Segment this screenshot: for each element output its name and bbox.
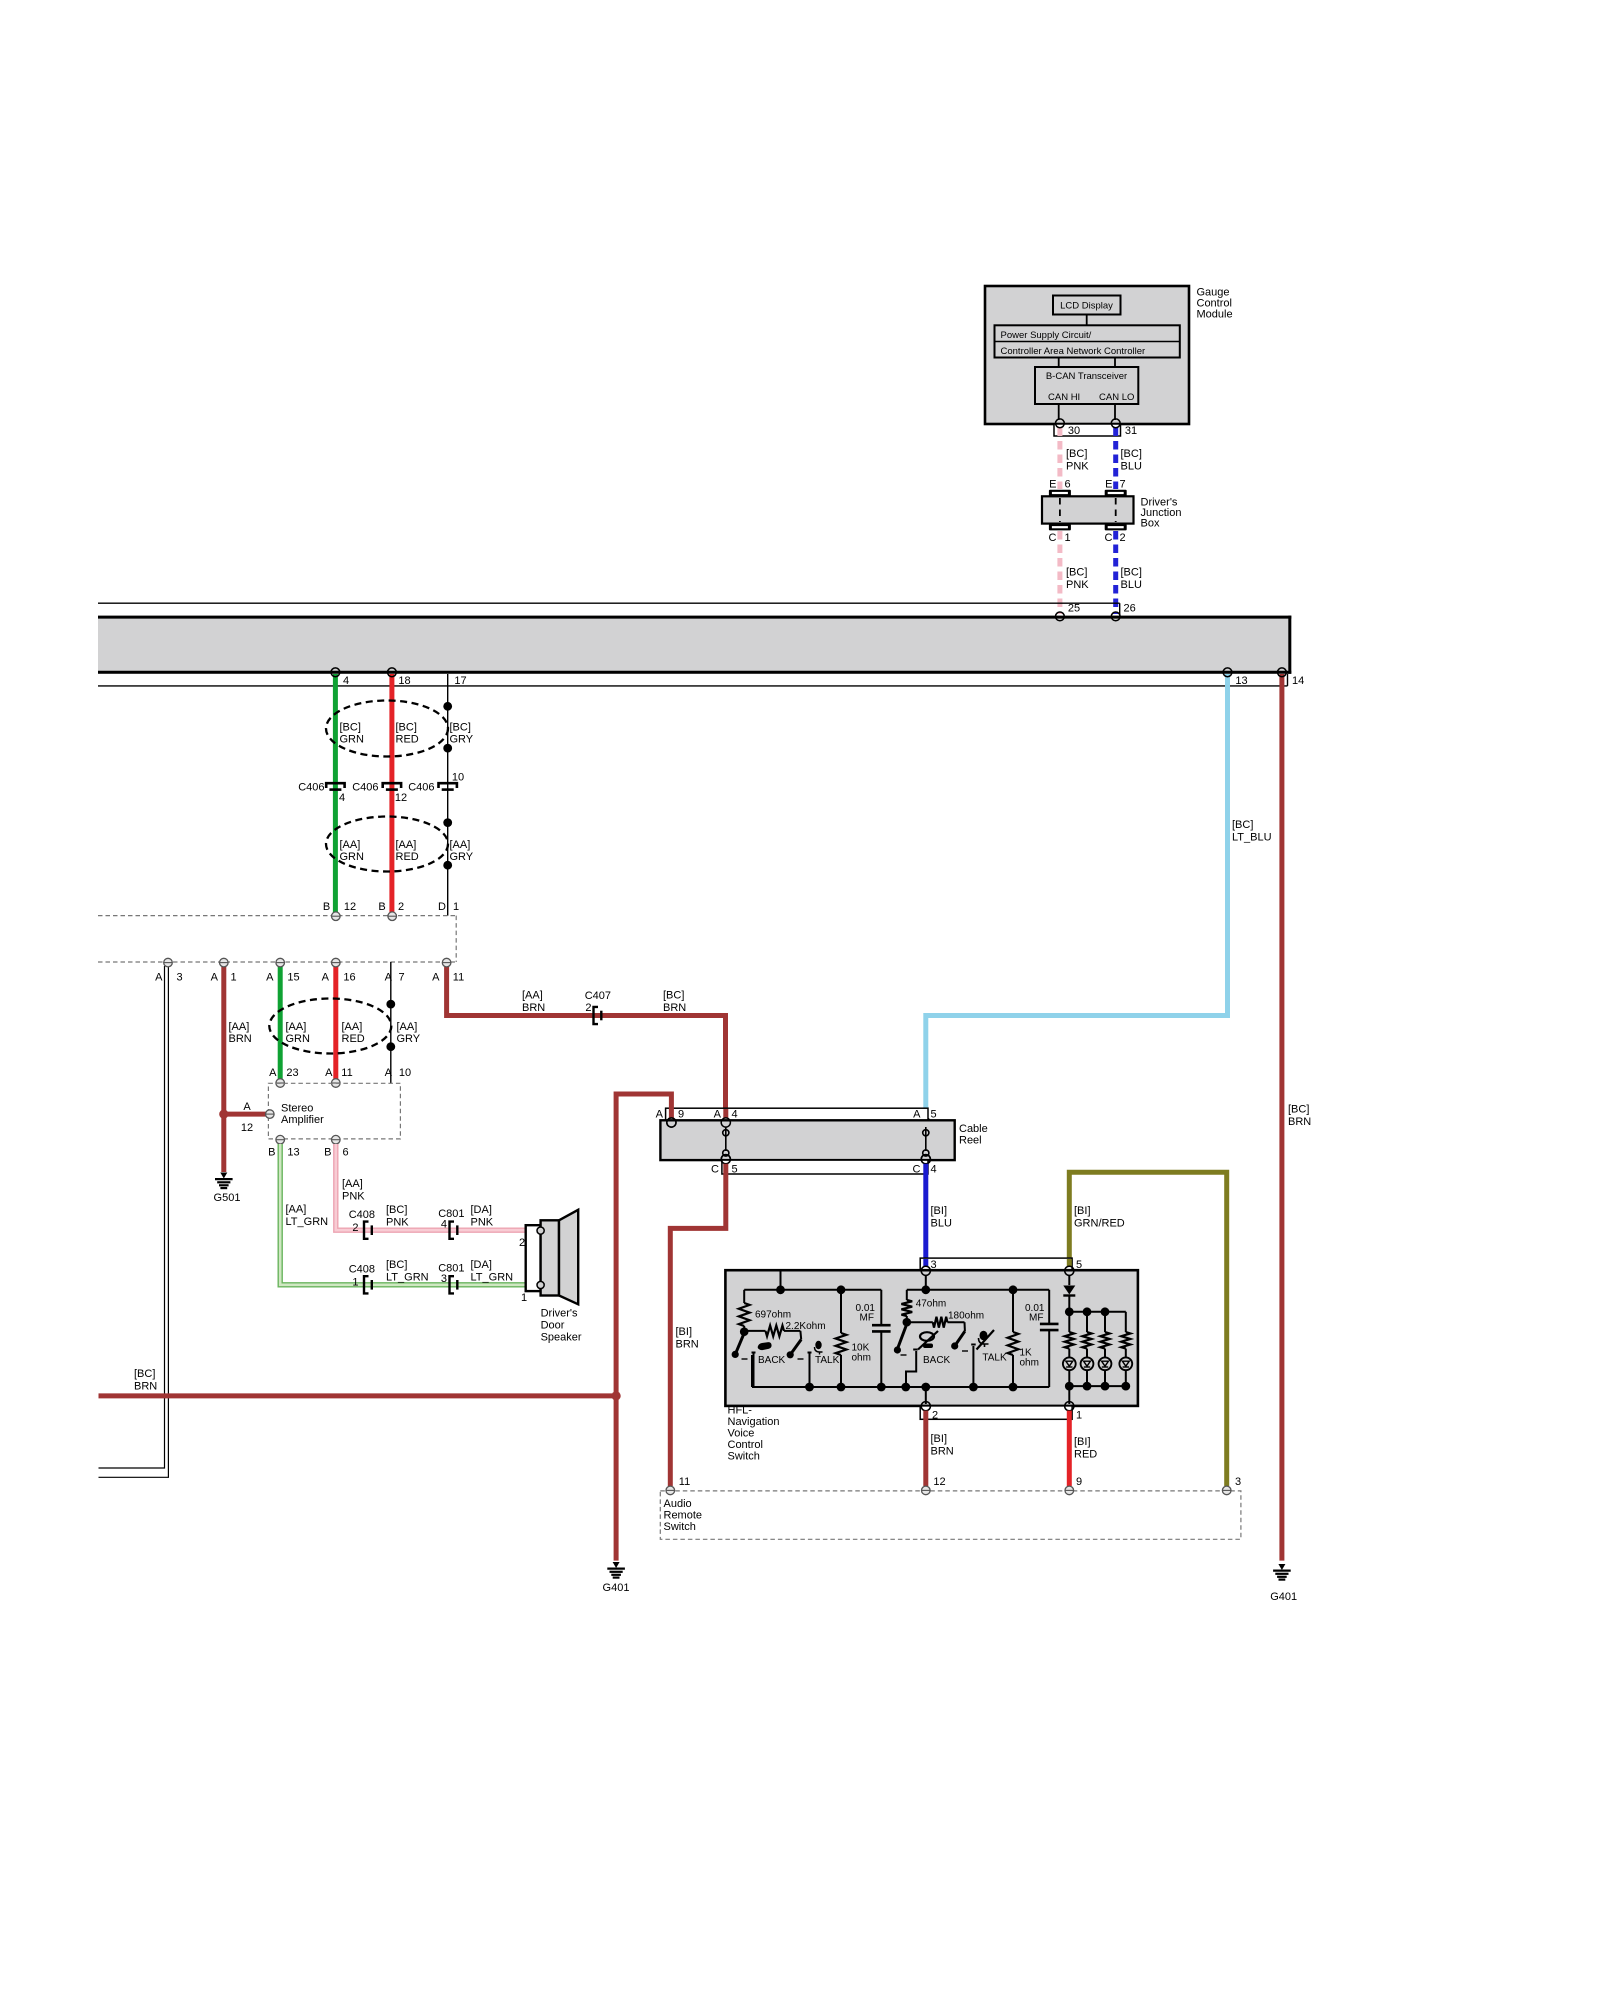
svg-text:13: 13 <box>287 1147 299 1159</box>
svg-text:Amplifier: Amplifier <box>281 1114 324 1126</box>
svg-text:10: 10 <box>452 772 464 784</box>
svg-text:14: 14 <box>1292 675 1304 687</box>
svg-text:47ohm: 47ohm <box>916 1298 947 1309</box>
svg-text:C408: C408 <box>349 1264 375 1276</box>
svg-text:6: 6 <box>342 1147 348 1159</box>
svg-text:TALK: TALK <box>815 1355 840 1366</box>
svg-text:Voice: Voice <box>728 1428 755 1440</box>
svg-text:GRY: GRY <box>450 734 474 746</box>
svg-text:[BC]: [BC] <box>1066 448 1087 460</box>
svg-text:[BC]: [BC] <box>450 722 471 734</box>
svg-text:18: 18 <box>398 675 410 687</box>
svg-text:[BC]: [BC] <box>1121 448 1142 460</box>
svg-text:10: 10 <box>399 1067 411 1079</box>
svg-text:BRN: BRN <box>676 1339 699 1351</box>
svg-text:[BC]: [BC] <box>1066 567 1087 579</box>
svg-text:GRY: GRY <box>450 851 474 863</box>
svg-text:Cable: Cable <box>959 1123 988 1135</box>
svg-text:[AA]: [AA] <box>342 1178 363 1190</box>
svg-text:GRY: GRY <box>397 1033 421 1045</box>
svg-text:PNK: PNK <box>1066 461 1089 473</box>
svg-text:A: A <box>385 1067 393 1079</box>
svg-text:[BI]: [BI] <box>676 1326 693 1338</box>
svg-text:Remote: Remote <box>664 1510 703 1522</box>
svg-text:C: C <box>711 1164 719 1176</box>
svg-text:MF: MF <box>1029 1313 1043 1324</box>
svg-text:G401: G401 <box>603 1582 630 1594</box>
svg-text:Controller Area Network Contro: Controller Area Network Controller <box>1001 346 1146 357</box>
svg-text:A: A <box>155 972 163 984</box>
svg-text:BACK: BACK <box>758 1355 786 1366</box>
svg-text:TALK: TALK <box>982 1352 1007 1363</box>
svg-text:1: 1 <box>453 901 459 913</box>
svg-text:[BC]: [BC] <box>386 1204 407 1216</box>
svg-text:A: A <box>211 972 219 984</box>
svg-text:9: 9 <box>678 1109 684 1121</box>
svg-text:2: 2 <box>585 1002 591 1014</box>
svg-text:5: 5 <box>930 1109 936 1121</box>
svg-text:B-CAN Transceiver: B-CAN Transceiver <box>1046 371 1127 382</box>
svg-text:6: 6 <box>1065 479 1071 491</box>
svg-text:LCD Display: LCD Display <box>1060 301 1113 312</box>
svg-text:2: 2 <box>398 901 404 913</box>
svg-text:LT_GRN: LT_GRN <box>386 1272 429 1284</box>
svg-text:B: B <box>378 901 385 913</box>
svg-text:Speaker: Speaker <box>541 1332 582 1344</box>
svg-text:26: 26 <box>1124 602 1136 614</box>
svg-text:1: 1 <box>352 1277 358 1289</box>
svg-text:D: D <box>438 901 446 913</box>
svg-text:[DA]: [DA] <box>471 1259 492 1271</box>
svg-text:B: B <box>268 1147 275 1159</box>
svg-text:C: C <box>1105 532 1113 544</box>
svg-text:E: E <box>1105 479 1112 491</box>
svg-text:[BI]: [BI] <box>931 1205 948 1217</box>
svg-text:Switch: Switch <box>728 1451 760 1463</box>
svg-text:Stereo: Stereo <box>281 1103 313 1115</box>
svg-text:C: C <box>913 1164 921 1176</box>
svg-text:15: 15 <box>287 972 299 984</box>
svg-text:16: 16 <box>343 972 355 984</box>
svg-text:BLU: BLU <box>1121 461 1142 473</box>
svg-text:A: A <box>269 1067 277 1079</box>
svg-text:PNK: PNK <box>471 1217 494 1229</box>
svg-text:Reel: Reel <box>959 1135 982 1147</box>
svg-text:GRN: GRN <box>340 734 365 746</box>
svg-text:[BI]: [BI] <box>931 1433 948 1445</box>
svg-text:[BC]: [BC] <box>1121 567 1142 579</box>
svg-text:3: 3 <box>1235 1476 1241 1488</box>
svg-text:A: A <box>432 972 440 984</box>
svg-text:[AA]: [AA] <box>397 1021 418 1033</box>
svg-text:3: 3 <box>441 1273 447 1285</box>
svg-text:5: 5 <box>731 1164 737 1176</box>
svg-text:RED: RED <box>342 1033 365 1045</box>
svg-text:A: A <box>913 1109 921 1121</box>
svg-text:BLU: BLU <box>931 1218 952 1230</box>
svg-text:[BC]: [BC] <box>1288 1104 1309 1116</box>
svg-text:7: 7 <box>1120 479 1126 491</box>
svg-text:RED: RED <box>1074 1449 1097 1461</box>
svg-text:MF: MF <box>860 1313 874 1324</box>
svg-text:Module: Module <box>1197 309 1233 321</box>
svg-text:ohm: ohm <box>852 1353 871 1364</box>
svg-text:[AA]: [AA] <box>286 1021 307 1033</box>
svg-text:[AA]: [AA] <box>450 839 471 851</box>
svg-text:[BC]: [BC] <box>386 1259 407 1271</box>
svg-text:7: 7 <box>398 972 404 984</box>
svg-text:Switch: Switch <box>664 1521 696 1533</box>
svg-text:3: 3 <box>176 972 182 984</box>
svg-text:[AA]: [AA] <box>342 1021 363 1033</box>
svg-text:A: A <box>714 1109 722 1121</box>
svg-text:[BC]: [BC] <box>1232 819 1253 831</box>
svg-text:[DA]: [DA] <box>471 1204 492 1216</box>
svg-text:4: 4 <box>441 1219 447 1231</box>
svg-text:11: 11 <box>453 972 464 984</box>
svg-text:A: A <box>325 1067 333 1079</box>
svg-text:BLU: BLU <box>1121 579 1142 591</box>
svg-text:31: 31 <box>1125 425 1137 437</box>
svg-text:PNK: PNK <box>342 1191 365 1203</box>
svg-text:25: 25 <box>1068 602 1080 614</box>
svg-text:4: 4 <box>339 792 345 804</box>
svg-text:C406: C406 <box>298 782 324 794</box>
svg-text:23: 23 <box>286 1067 298 1079</box>
svg-text:CAN LO: CAN LO <box>1099 392 1134 403</box>
svg-text:30: 30 <box>1068 425 1080 437</box>
svg-text:4: 4 <box>343 675 349 687</box>
svg-text:LT_BLU: LT_BLU <box>1232 832 1272 844</box>
svg-text:A: A <box>656 1109 664 1121</box>
svg-text:Navigation: Navigation <box>728 1416 780 1428</box>
svg-text:C408: C408 <box>349 1209 375 1221</box>
svg-text:[AA]: [AA] <box>522 990 543 1002</box>
svg-text:BRN: BRN <box>134 1381 157 1393</box>
svg-text:RED: RED <box>396 851 419 863</box>
svg-text:2.2Kohm: 2.2Kohm <box>786 1321 826 1332</box>
svg-text:[BI]: [BI] <box>1074 1436 1091 1448</box>
svg-text:4: 4 <box>731 1109 737 1121</box>
svg-text:[BC]: [BC] <box>134 1368 155 1380</box>
svg-text:Door: Door <box>541 1320 565 1332</box>
svg-text:A: A <box>266 972 274 984</box>
svg-text:[BC]: [BC] <box>396 722 417 734</box>
svg-text:PNK: PNK <box>386 1217 409 1229</box>
svg-text:A: A <box>322 972 330 984</box>
svg-text:C407: C407 <box>585 990 611 1002</box>
svg-text:BRN: BRN <box>522 1002 545 1014</box>
svg-text:12: 12 <box>344 901 356 913</box>
svg-text:1: 1 <box>1065 532 1071 544</box>
svg-text:2: 2 <box>352 1222 358 1234</box>
svg-text:LT_GRN: LT_GRN <box>471 1272 514 1284</box>
svg-text:Audio: Audio <box>664 1498 692 1510</box>
svg-text:[AA]: [AA] <box>396 839 417 851</box>
svg-text:1: 1 <box>230 972 236 984</box>
svg-text:12: 12 <box>933 1476 945 1488</box>
svg-text:BRN: BRN <box>931 1446 954 1458</box>
svg-text:2: 2 <box>1120 532 1126 544</box>
svg-text:1: 1 <box>1076 1410 1082 1422</box>
svg-text:9: 9 <box>1076 1476 1082 1488</box>
svg-text:Box: Box <box>1141 518 1160 530</box>
svg-text:BACK: BACK <box>923 1355 951 1366</box>
svg-text:[BC]: [BC] <box>663 990 684 1002</box>
svg-text:12: 12 <box>395 792 407 804</box>
svg-text:13: 13 <box>1235 675 1247 687</box>
svg-text:LT_GRN: LT_GRN <box>286 1216 329 1228</box>
svg-text:2: 2 <box>932 1410 938 1422</box>
svg-text:GRN/RED: GRN/RED <box>1074 1218 1125 1230</box>
svg-text:BRN: BRN <box>229 1033 252 1045</box>
svg-text:G401: G401 <box>1270 1591 1297 1603</box>
svg-text:HFL-: HFL- <box>728 1405 753 1417</box>
svg-text:BRN: BRN <box>1288 1116 1311 1128</box>
svg-text:A: A <box>243 1101 251 1113</box>
svg-text:12: 12 <box>241 1122 253 1134</box>
svg-text:2: 2 <box>519 1237 525 1249</box>
svg-text:180ohm: 180ohm <box>948 1311 984 1322</box>
svg-text:GRN: GRN <box>340 851 365 863</box>
svg-text:B: B <box>323 901 330 913</box>
svg-text:RED: RED <box>396 734 419 746</box>
svg-text:ohm: ohm <box>1020 1358 1039 1369</box>
svg-text:GRN: GRN <box>286 1033 311 1045</box>
svg-text:C: C <box>1049 532 1057 544</box>
svg-text:[AA]: [AA] <box>340 839 361 851</box>
svg-text:[BC]: [BC] <box>340 722 361 734</box>
svg-text:E: E <box>1049 479 1056 491</box>
svg-text:BRN: BRN <box>663 1002 686 1014</box>
svg-text:[AA]: [AA] <box>286 1204 307 1216</box>
svg-text:Control: Control <box>728 1439 763 1451</box>
svg-text:C406: C406 <box>352 782 378 794</box>
svg-text:1: 1 <box>521 1292 527 1304</box>
svg-text:G501: G501 <box>214 1192 241 1204</box>
svg-text:4: 4 <box>930 1164 936 1176</box>
svg-text:C406: C406 <box>408 782 434 794</box>
svg-text:[BI]: [BI] <box>1074 1205 1091 1217</box>
svg-text:CAN HI: CAN HI <box>1048 392 1080 403</box>
svg-text:Power Supply Circuit/: Power Supply Circuit/ <box>1001 330 1092 341</box>
svg-text:697ohm: 697ohm <box>755 1310 791 1321</box>
svg-text:PNK: PNK <box>1066 579 1089 591</box>
svg-text:Driver's: Driver's <box>541 1308 578 1320</box>
svg-text:11: 11 <box>341 1067 352 1079</box>
svg-text:17: 17 <box>454 675 466 687</box>
svg-text:11: 11 <box>679 1476 690 1488</box>
svg-text:B: B <box>324 1147 331 1159</box>
svg-text:[AA]: [AA] <box>229 1021 250 1033</box>
